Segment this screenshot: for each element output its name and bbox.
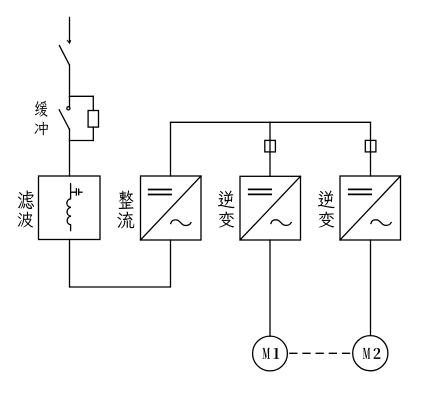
- label 缓冲: [34, 101, 48, 135]
- contactor blade: [59, 110, 69, 129]
- wire: buffer branch bottom: [70, 140, 94, 142]
- inverter 2 box (逆变): [340, 176, 401, 240]
- wire: DC link bottom U: [70, 240, 171, 288]
- mechanical coupling dashed line: [290, 352, 351, 354]
- wire: buffer branch top: [70, 95, 94, 97]
- arrowhead on supply line: [67, 40, 71, 43]
- rectifier box (整流): [141, 176, 202, 240]
- capacitor terminal: [79, 191, 82, 193]
- capacitor plates: [75, 189, 77, 195]
- wire: inverter 1 to motor M1: [269, 240, 271, 336]
- wire: to filter box: [69, 141, 71, 177]
- contactor contact circle: [67, 107, 70, 110]
- motor M1 circle: [253, 336, 288, 371]
- wire: inverter 2 to motor M2: [370, 240, 372, 336]
- wire: inverter 2 drop: [370, 122, 372, 176]
- label 逆变 (inverter 2): [318, 190, 335, 227]
- fuse FU2: [365, 140, 376, 152]
- fuse FU1: [265, 140, 276, 152]
- motor M1 label: [262, 348, 279, 359]
- label 逆变 (inverter 1): [218, 190, 235, 227]
- inverter 1 box (逆变): [240, 176, 301, 240]
- wire: switch to buffer branch: [69, 65, 71, 97]
- label 整流: [117, 190, 134, 228]
- wire: inverter 1 drop: [269, 122, 271, 176]
- inductor L coil: [67, 192, 71, 230]
- resistor R (buffer): [88, 111, 98, 128]
- wire: resistor top lead: [92, 96, 94, 110]
- wire: below contactor: [69, 129, 71, 141]
- wire: incoming supply line: [69, 17, 71, 42]
- motor M2 circle: [353, 336, 388, 371]
- filter box (滤波): [39, 176, 101, 240]
- label 滤波: [18, 190, 34, 227]
- wire: main drop to contact: [69, 96, 71, 106]
- wire: DC bus: [171, 121, 371, 123]
- wire: resistor bottom lead: [92, 127, 94, 140]
- capacitor branch wire: [71, 184, 76, 192]
- wire: rectifier top to DC bus: [170, 122, 172, 176]
- disconnect switch blade: [59, 46, 69, 65]
- motor M2 label: [363, 348, 381, 359]
